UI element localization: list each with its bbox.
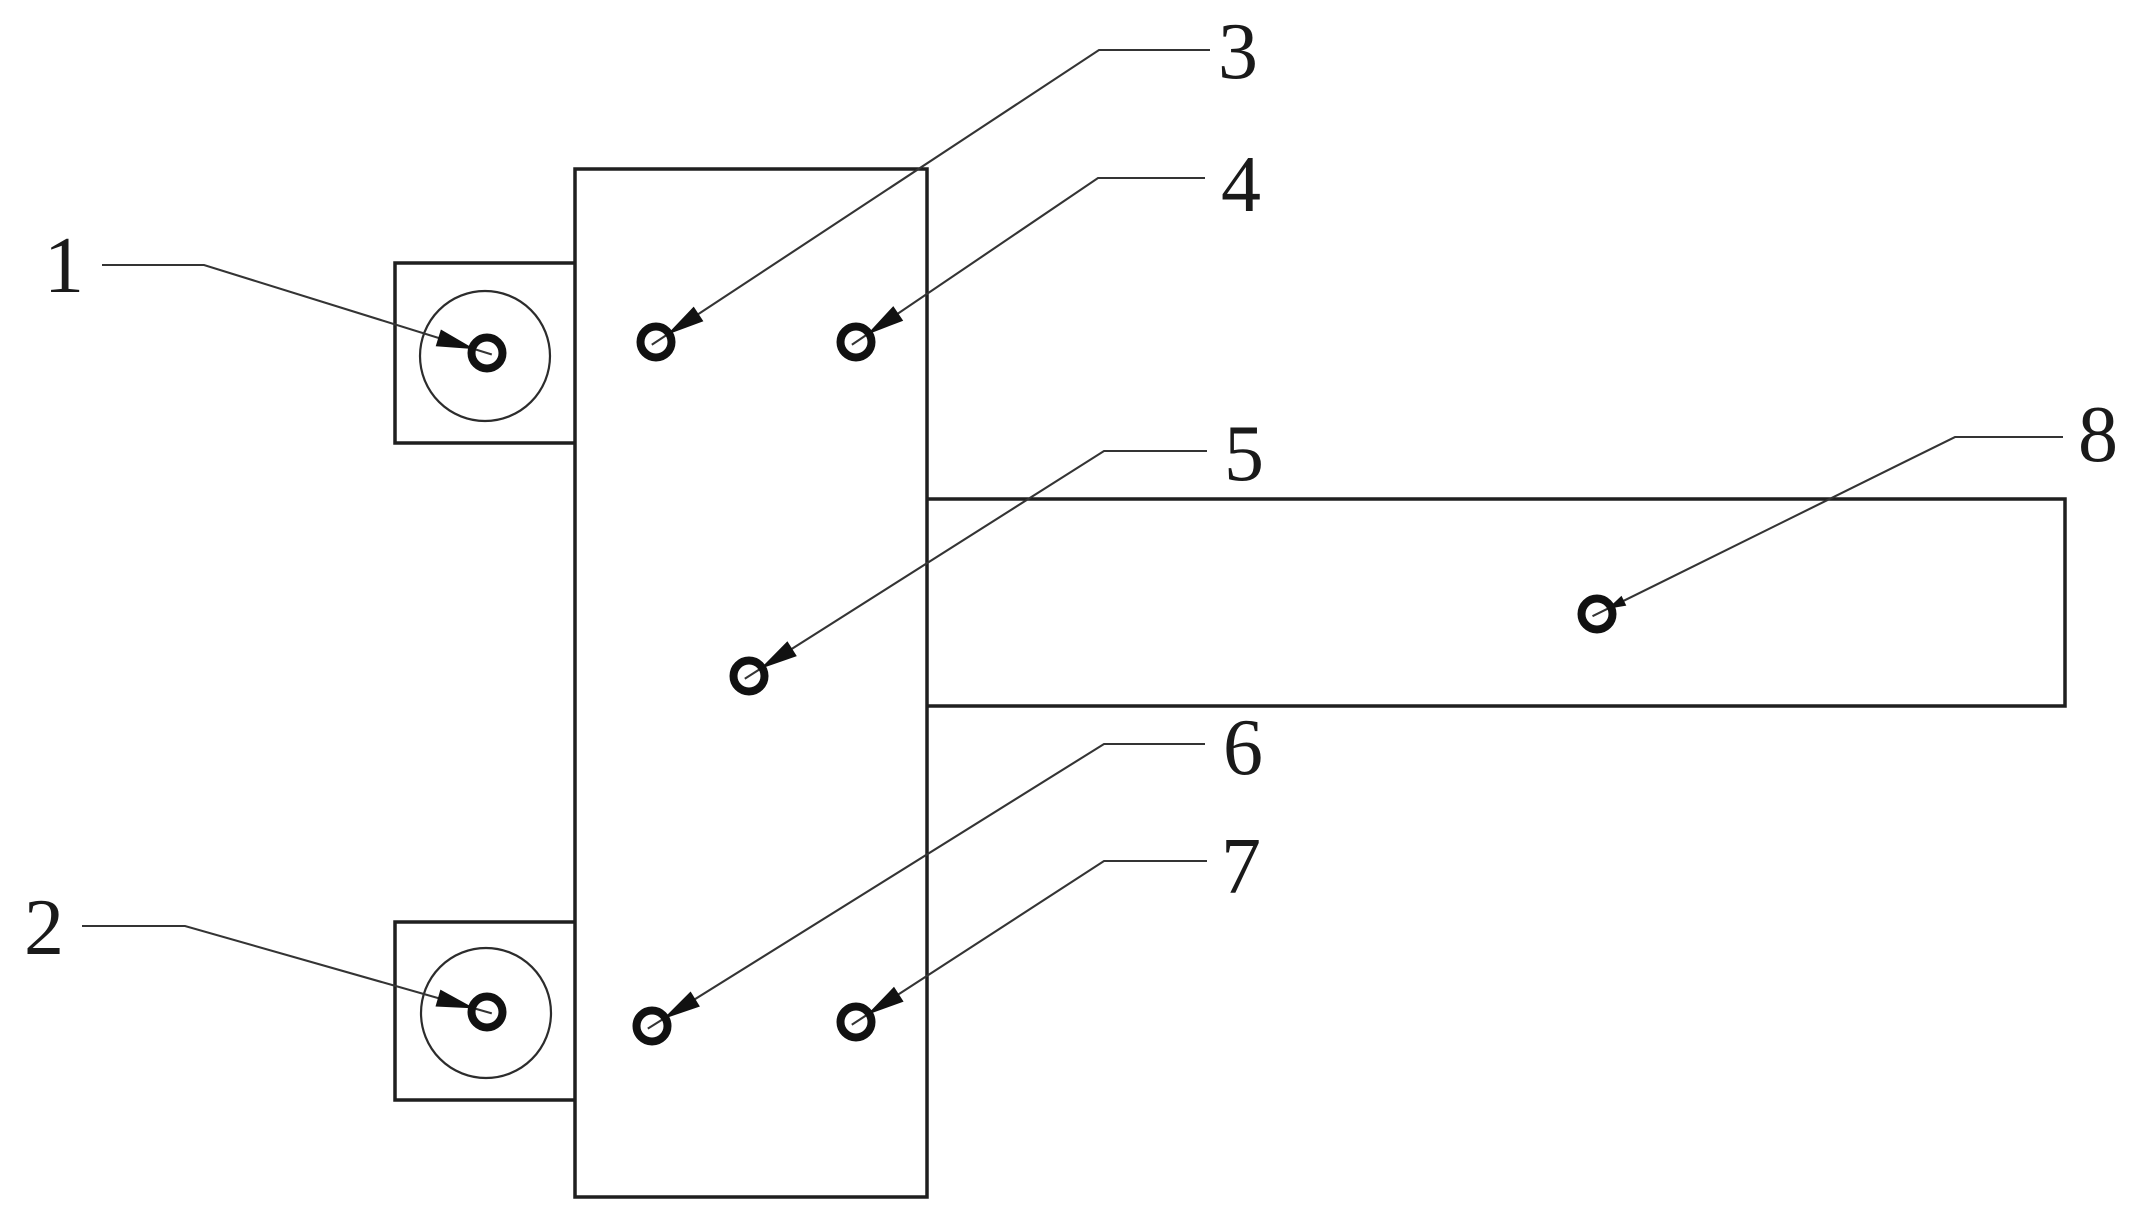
arrowhead 4	[867, 306, 903, 335]
mounting block 2 (bottom-left square)	[395, 922, 577, 1100]
leader line 7	[852, 861, 1207, 1025]
arrowhead 8	[1608, 596, 1627, 609]
marker circle 4	[841, 327, 872, 358]
marker circle 6	[637, 1011, 668, 1042]
leader line 1	[102, 265, 492, 355]
bearing circle of block 1	[420, 291, 550, 421]
leader line 5	[745, 451, 1207, 679]
svg-text:6: 6	[1223, 704, 1263, 792]
svg-text:3: 3	[1218, 8, 1258, 96]
marker circle 5	[734, 661, 765, 692]
svg-text:8: 8	[2078, 391, 2118, 479]
horizontal arm (part 8)	[927, 499, 2065, 706]
arrowhead 6	[663, 992, 700, 1020]
svg-text:7: 7	[1221, 823, 1261, 911]
marker circle 8	[1582, 599, 1613, 630]
arrowhead 1	[436, 330, 475, 350]
arrowhead 2	[436, 990, 475, 1009]
svg-text:1: 1	[44, 222, 84, 310]
svg-text:2: 2	[24, 884, 64, 972]
arrowhead 3	[667, 307, 704, 335]
arrowhead 5	[760, 641, 797, 669]
main vertical plate	[575, 169, 927, 1197]
leader line 4	[852, 178, 1205, 345]
svg-text:4: 4	[1221, 141, 1261, 229]
arrowhead 7	[867, 987, 904, 1015]
marker circle 2	[472, 997, 503, 1028]
svg-text:5: 5	[1224, 410, 1264, 498]
marker circle 1	[472, 338, 503, 369]
marker circle 7	[841, 1007, 872, 1038]
marker circle 3	[641, 327, 672, 358]
leader line 3	[652, 50, 1210, 345]
leader line 2	[82, 926, 492, 1013]
leader line 8	[1593, 437, 2064, 616]
bearing circle of block 2	[421, 948, 551, 1078]
mounting block 1 (top-left square)	[395, 263, 577, 443]
leader line 6	[648, 744, 1205, 1029]
